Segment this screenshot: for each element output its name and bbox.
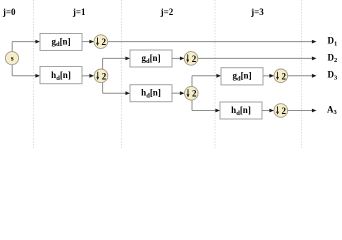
wire downsampler h2 branch vertical xyxy=(191,76,193,111)
wire s to gd1 xyxy=(12,40,40,44)
level boundary j3/right xyxy=(301,0,303,148)
svg-text:2: 2 xyxy=(282,106,287,116)
wire hd2 to downsampler xyxy=(172,91,185,95)
filter gd[n] level 3 xyxy=(221,68,263,85)
filter gd[n] level 2 xyxy=(130,50,172,67)
wire branch to gd2 xyxy=(103,57,130,61)
svg-text:j=3: j=3 xyxy=(250,7,264,17)
svg-text:j=1: j=1 xyxy=(72,7,86,17)
svg-text:2: 2 xyxy=(102,37,107,47)
filter hd[n] level 2 xyxy=(130,85,172,102)
wire gd3 to downsampler xyxy=(263,74,274,78)
wire to output D3 xyxy=(288,74,317,78)
wire branch to hd3 xyxy=(192,109,220,113)
filter hd[n] level 1 xyxy=(40,67,82,84)
svg-text:2: 2 xyxy=(192,54,197,64)
downsampler after hd3 xyxy=(274,104,288,118)
svg-text:2: 2 xyxy=(192,89,197,99)
wire downsampler h1 branch vertical xyxy=(102,58,104,93)
level boundary j1/j2 xyxy=(121,0,123,148)
wire s to hd1 xyxy=(12,74,40,78)
downsampler after gd1 xyxy=(94,35,108,49)
downsampler after hd2 xyxy=(185,86,199,100)
wire source branch vertical xyxy=(11,42,13,76)
svg-text:s: s xyxy=(11,55,14,63)
level boundary j2/j3 xyxy=(214,0,216,148)
wire branch to hd2 xyxy=(103,91,130,95)
filter gd[n] level 1 xyxy=(40,34,82,51)
wire branch to gd3 xyxy=(192,74,221,78)
wire to output D1 xyxy=(108,40,317,44)
wire hd3 to downsampler xyxy=(262,109,274,113)
svg-text:j=2: j=2 xyxy=(160,7,174,17)
wire gd2 to downsampler xyxy=(172,57,185,61)
downsampler after gd2 xyxy=(184,52,198,66)
svg-text:2: 2 xyxy=(102,71,107,81)
svg-text:j=0: j=0 xyxy=(2,7,16,17)
filter hd[n] level 3 xyxy=(220,102,262,119)
wire to output A3 xyxy=(288,109,317,113)
wire to output D2 xyxy=(198,57,317,61)
svg-text:2: 2 xyxy=(282,71,287,81)
source node s xyxy=(5,52,18,65)
level boundary j0/j1 xyxy=(33,0,35,148)
wire hd1 to downsampler xyxy=(82,74,94,78)
downsampler after gd3 xyxy=(274,69,288,83)
downsampler after hd1 xyxy=(94,69,108,83)
wire gd1 to downsampler xyxy=(82,40,94,44)
